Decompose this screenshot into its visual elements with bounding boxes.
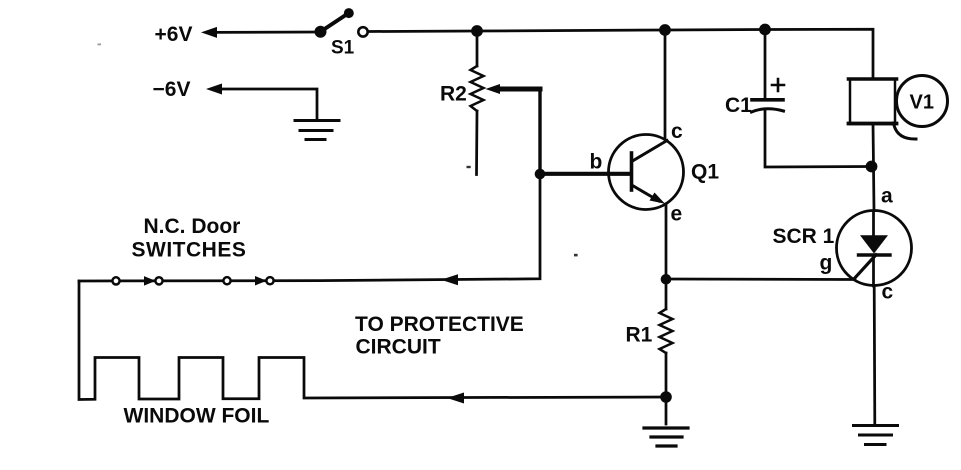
svg-text:S1: S1	[331, 38, 355, 59]
svg-text:R1: R1	[626, 324, 653, 347]
svg-text:−6V: −6V	[153, 78, 191, 101]
svg-text:a: a	[881, 184, 893, 207]
svg-text:WINDOW FOIL: WINDOW FOIL	[124, 405, 270, 428]
svg-text:CIRCUIT: CIRCUIT	[356, 336, 441, 359]
svg-text:SCR 1: SCR 1	[773, 225, 835, 248]
svg-text:c: c	[671, 120, 683, 143]
svg-text:e: e	[671, 202, 683, 225]
svg-text:+6V: +6V	[155, 23, 193, 46]
svg-text:c: c	[882, 281, 894, 304]
svg-text:SWITCHES: SWITCHES	[132, 239, 247, 262]
svg-text:R2: R2	[440, 83, 467, 106]
svg-text:V1: V1	[910, 92, 934, 114]
svg-text:TO PROTECTIVE: TO PROTECTIVE	[355, 313, 524, 336]
svg-text:g: g	[820, 252, 833, 275]
svg-text:Q1: Q1	[691, 161, 719, 184]
svg-text:b: b	[590, 150, 603, 173]
svg-text:C1: C1	[725, 94, 752, 117]
svg-text:N.C. Door: N.C. Door	[144, 215, 241, 238]
